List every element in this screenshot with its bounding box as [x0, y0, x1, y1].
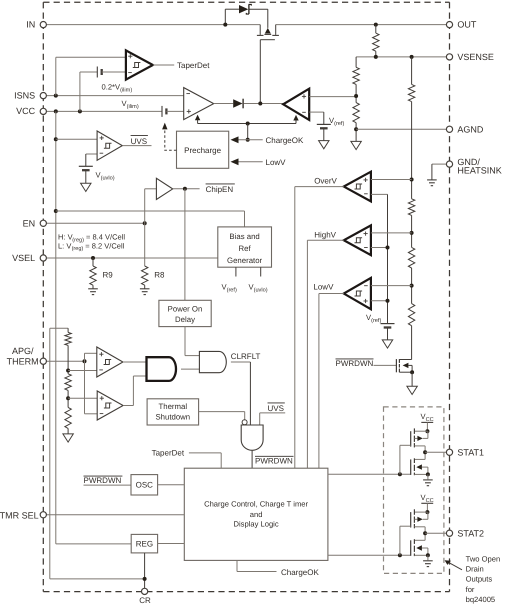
svg-text:LowV: LowV	[313, 283, 334, 292]
svg-text:Drain: Drain	[466, 565, 484, 574]
svg-text:bq24005: bq24005	[466, 595, 496, 604]
svg-text:Precharge: Precharge	[184, 146, 221, 155]
svg-text:CLRFLT: CLRFLT	[231, 352, 261, 361]
svg-text:R8: R8	[154, 271, 165, 280]
svg-text:PWRDWN: PWRDWN	[84, 476, 122, 485]
svg-text:LowV: LowV	[266, 158, 287, 167]
svg-text:ISNS: ISNS	[14, 91, 35, 101]
svg-text:EN: EN	[23, 218, 36, 228]
svg-text:VSENSE: VSENSE	[457, 52, 494, 62]
svg-text:THERM: THERM	[7, 356, 39, 366]
svg-text:OSC: OSC	[136, 481, 154, 490]
svg-text:OUT: OUT	[457, 20, 477, 30]
svg-text:Shutdown: Shutdown	[155, 412, 190, 421]
svg-text:for: for	[466, 585, 475, 594]
svg-text:Power On: Power On	[168, 304, 203, 313]
svg-text:Two Open: Two Open	[466, 554, 501, 563]
svg-text:REG: REG	[136, 540, 153, 549]
svg-text:PWRDWN: PWRDWN	[336, 359, 374, 368]
svg-text:HighV: HighV	[314, 231, 336, 240]
svg-text:STAT1: STAT1	[457, 448, 484, 458]
svg-text:TaperDet: TaperDet	[177, 61, 210, 70]
svg-text:H: V: H: V	[58, 233, 73, 242]
svg-text:HEATSINK: HEATSINK	[457, 166, 501, 176]
svg-text:TaperDet: TaperDet	[152, 448, 185, 457]
svg-text:and: and	[250, 510, 263, 519]
svg-text:CR: CR	[139, 596, 151, 605]
svg-text:ChipEN: ChipEN	[206, 185, 234, 194]
svg-text:OverV: OverV	[314, 176, 337, 185]
svg-text:R9: R9	[103, 271, 114, 280]
svg-text:VCC: VCC	[16, 106, 36, 116]
svg-text:Bias and: Bias and	[229, 232, 259, 241]
svg-text:APG/: APG/	[12, 346, 34, 356]
svg-text:IN: IN	[26, 20, 35, 30]
svg-text:STAT2: STAT2	[457, 528, 484, 538]
svg-text:PWRDWN: PWRDWN	[255, 457, 293, 466]
svg-text:ChargeOK: ChargeOK	[281, 568, 319, 577]
svg-text:Outputs: Outputs	[466, 575, 493, 584]
svg-text:AGND: AGND	[457, 124, 484, 134]
svg-text:UVS: UVS	[131, 137, 147, 146]
svg-text:Display Logic: Display Logic	[234, 519, 279, 528]
svg-text:Generator: Generator	[227, 256, 263, 265]
svg-text:Delay: Delay	[175, 315, 195, 324]
svg-text:UVS: UVS	[268, 404, 284, 413]
svg-text:Charge Control, Charge T imer: Charge Control, Charge T imer	[204, 500, 308, 509]
svg-text:VSEL: VSEL	[12, 253, 35, 263]
svg-text:Ref: Ref	[239, 244, 252, 253]
svg-text:TMR SEL: TMR SEL	[0, 511, 39, 521]
svg-text:ChargeOK: ChargeOK	[266, 136, 304, 145]
svg-text:L: V: L: V	[58, 241, 71, 250]
svg-text:Thermal: Thermal	[158, 402, 187, 411]
